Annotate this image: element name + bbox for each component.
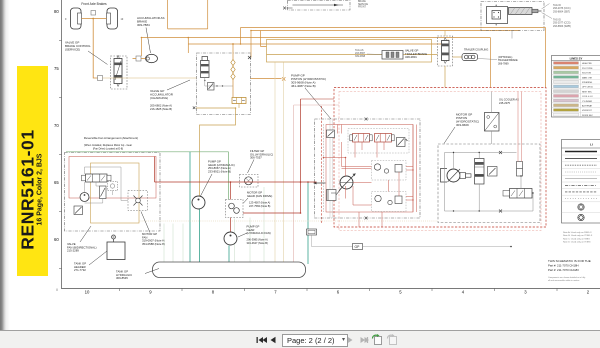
valve trailer brake bbox=[438, 36, 453, 66]
wire red pump2 feed bbox=[230, 182, 232, 232]
check valve 3 bbox=[231, 74, 235, 80]
check valve 1 bbox=[231, 60, 235, 66]
border zone numbers bbox=[54, 9, 590, 295]
svg-text:LINES SY: LINES SY bbox=[570, 57, 583, 61]
leader to brake valve bbox=[88, 51, 108, 65]
leader tank bbox=[145, 269, 159, 274]
svg-text:(CHARGING): (CHARGING) bbox=[150, 96, 168, 100]
svg-text:WORK SEC: WORK SEC bbox=[582, 115, 593, 117]
svg-text:354-0588 (Note B): 354-0588 (Note B) bbox=[142, 242, 165, 246]
port square at valve bbox=[98, 76, 103, 81]
wire spool drop bbox=[238, 104, 240, 109]
svg-text:Front Axle Brakes: Front Axle Brakes bbox=[81, 2, 107, 6]
case drain dashed riser bbox=[321, 106, 323, 223]
plug X pump box bottom bbox=[365, 217, 368, 220]
header tank breather bbox=[112, 235, 116, 242]
label: pump gp gear hydraulic fan bbox=[247, 225, 271, 236]
svg-text:GP: GP bbox=[355, 245, 361, 249]
label: motor gp gear fan drive bbox=[247, 191, 272, 198]
wire red cooler return riser bbox=[234, 99, 301, 213]
icon export page (disabled) bbox=[388, 334, 397, 345]
actuator body bbox=[487, 7, 508, 24]
svg-text:Note D: Used only on IT38G: Note D: Used only on IT38G bbox=[563, 241, 591, 244]
svg-text:Note A: Used only on 938G II: Note A: Used only on 938G II bbox=[563, 231, 592, 234]
svg-text:MAIN 1 RE: MAIN 1 RE bbox=[582, 76, 593, 79]
next page button (disabled) bbox=[348, 337, 353, 344]
label: valve gp brake control bbox=[65, 41, 91, 52]
pump gp piston box bbox=[315, 119, 421, 218]
wire cooler risers bbox=[491, 92, 493, 145]
coupler screen symbol bbox=[382, 51, 403, 60]
label: optional trailer brake bbox=[498, 56, 518, 65]
leader motor gp bbox=[444, 127, 455, 144]
wire red charge circuit bbox=[155, 181, 317, 183]
oil cooler symbol bbox=[485, 113, 500, 132]
wire coupler feed bbox=[267, 54, 438, 56]
flushing spool valve bbox=[503, 189, 532, 199]
svg-text:NEXT SEC: NEXT SEC bbox=[582, 91, 593, 93]
wheel brake right bbox=[107, 8, 118, 29]
plug X top right of charging box bbox=[248, 56, 251, 59]
motor gp gear symbol bbox=[226, 200, 244, 218]
label: tank gp header bbox=[74, 262, 86, 273]
svg-text:TRAILER COUPLING: TRAILER COUPLING bbox=[464, 49, 488, 52]
svg-text:348-2801: 348-2801 bbox=[405, 55, 417, 59]
line style samples bbox=[565, 152, 597, 199]
svg-text:8: 8 bbox=[212, 290, 215, 295]
last page button (disabled) bbox=[361, 337, 370, 343]
orange brake supply wires bbox=[133, 0, 546, 87]
legend table: line colors bbox=[552, 56, 600, 118]
leader to accumulator bbox=[146, 28, 151, 54]
fan tan frame bbox=[91, 163, 140, 223]
junction dot bbox=[235, 107, 237, 109]
wire AB to GP bbox=[312, 235, 353, 247]
previous page button bbox=[271, 337, 276, 344]
fan pump circle bbox=[80, 193, 89, 202]
svg-text:216-1825 (Note B): 216-1825 (Note B) bbox=[150, 107, 172, 111]
wire riser x251 bbox=[250, 31, 252, 58]
svg-text:60: 60 bbox=[54, 237, 59, 242]
label: accumulator brake bbox=[137, 16, 165, 27]
icon export page bbox=[373, 334, 382, 345]
leader tag as bbox=[367, 53, 382, 56]
junction brake tee bbox=[92, 18, 94, 20]
fan relief valve bbox=[100, 186, 107, 199]
tan supply loop box bbox=[267, 40, 432, 63]
actuator dots bbox=[493, 5, 499, 26]
leader pump gp bbox=[305, 88, 331, 119]
svg-text:65: 65 bbox=[54, 180, 59, 185]
svg-text:70: 70 bbox=[54, 123, 59, 128]
svg-text:6: 6 bbox=[337, 290, 340, 295]
leader motor fan bbox=[141, 212, 150, 233]
motor gp piston box bbox=[438, 144, 540, 223]
svg-text:293-8806 (SWB): 293-8806 (SWB) bbox=[553, 25, 571, 28]
pilot sub box bbox=[348, 129, 409, 154]
leader motor gear bbox=[244, 198, 249, 203]
wire riser x141 bbox=[141, 39, 143, 57]
junction dots red charge bbox=[230, 181, 309, 214]
wheel brake left bbox=[71, 8, 82, 29]
wire brake crossover bbox=[82, 18, 107, 20]
servo actuator cylinder bbox=[327, 188, 342, 201]
svg-text:COOL & LU: COOL & LU bbox=[582, 96, 593, 98]
junction dots red bbox=[323, 157, 414, 201]
wire pink case drain bbox=[294, 105, 339, 268]
wire bus y28.9 bbox=[168, 28, 208, 30]
plug X bottom left of charging box bbox=[193, 107, 196, 110]
svg-text:LIFT CIRCU: LIFT CIRCU bbox=[582, 87, 594, 89]
plug X pump box top bbox=[365, 118, 368, 121]
wire green manifold bbox=[66, 151, 229, 153]
svg-text:309-7884: 309-7884 bbox=[137, 23, 150, 27]
wire valve drain bbox=[444, 66, 446, 88]
motor internal wires bbox=[445, 153, 534, 212]
pump internal red frame bbox=[326, 125, 413, 213]
pale return wires left bbox=[164, 187, 264, 268]
fan pilot sub box bbox=[108, 182, 118, 191]
wire teal pump2 suction bbox=[228, 246, 230, 271]
wire teal charge suction bbox=[307, 182, 309, 264]
fan internal wires bbox=[85, 167, 129, 203]
svg-text:Reversible Fan Arrangement (At: Reversible Fan Arrangement (Attachment) bbox=[84, 136, 138, 140]
symbol sample check valve 2 bbox=[578, 214, 584, 220]
pump internal gray rails bbox=[323, 124, 325, 212]
resolver component bbox=[517, 162, 523, 177]
svg-text:all and measurable within in r: all and measurable within in routine bbox=[548, 279, 580, 282]
leader pump1 bbox=[201, 174, 213, 196]
red control wires bbox=[324, 125, 417, 228]
wire accumulator to tee bbox=[133, 58, 146, 60]
svg-text:319-4627 (Note B): 319-4627 (Note B) bbox=[247, 241, 268, 245]
connector GP bbox=[353, 244, 363, 250]
fan directional valve bbox=[82, 174, 112, 182]
svg-text:GEAR (FAN DRIVE): GEAR (FAN DRIVE) bbox=[247, 194, 272, 198]
label: valve gp accumulator charging bbox=[150, 89, 174, 100]
wire supply y44 bbox=[188, 40, 448, 45]
svg-text:75: 75 bbox=[54, 66, 59, 71]
svg-text:2: 2 bbox=[587, 290, 590, 295]
wire main supply y27.5 bbox=[241, 28, 546, 88]
shuttle box bbox=[488, 167, 498, 177]
svg-text:5: 5 bbox=[399, 290, 402, 295]
svg-text:CYLINDER: CYLINDER bbox=[582, 101, 593, 103]
wire brake supply down bbox=[93, 19, 97, 79]
svg-text:215-2289: 215-2289 bbox=[67, 249, 79, 253]
svg-text:Note B: Used only on IT38G II: Note B: Used only on IT38G II bbox=[563, 234, 593, 237]
legend row texts bbox=[582, 63, 594, 117]
filter gp symbol bbox=[240, 175, 259, 188]
label: valve fan bidirectional bbox=[67, 242, 97, 253]
svg-text:271-7732: 271-7732 bbox=[74, 268, 86, 272]
servo components upper bbox=[374, 164, 402, 173]
junction dot GP wire bbox=[510, 246, 512, 248]
schematic applicability text bbox=[548, 259, 591, 272]
valve service brake bbox=[111, 55, 128, 89]
yellow document tag bbox=[17, 66, 48, 276]
motor control spool bbox=[475, 159, 485, 185]
fan check valve bbox=[74, 206, 83, 215]
wire riser from top A bbox=[167, 0, 169, 29]
leader to charging valve bbox=[167, 80, 190, 90]
label: tag id upper bbox=[553, 4, 571, 13]
wire red fan box branch bbox=[154, 157, 156, 183]
charging spool valve bbox=[232, 98, 246, 104]
svg-text:BRAKE: BRAKE bbox=[358, 0, 366, 3]
leader valve fan bbox=[80, 226, 91, 242]
pink supply risers bbox=[518, 92, 521, 162]
sheet border frame bbox=[62, 0, 600, 289]
svg-text:245-2375: 245-2375 bbox=[499, 101, 511, 105]
svg-text:303-9609: 303-9609 bbox=[456, 123, 469, 127]
svg-text:Part #: 211-7070 CH18H: Part #: 211-7070 CH18H bbox=[548, 263, 579, 267]
notes text block bbox=[563, 231, 593, 244]
label: pump gp gear hydraulic bbox=[208, 160, 235, 174]
tank gp header bbox=[107, 242, 125, 260]
pale tan return wires bbox=[275, 63, 284, 269]
label: tag id lower bbox=[553, 19, 571, 28]
svg-text:SUCTION: SUCTION bbox=[582, 73, 592, 75]
junction dots motor bbox=[453, 152, 534, 212]
label: motor gp fan bbox=[142, 232, 165, 246]
svg-text:HIGH PRE: HIGH PRE bbox=[582, 63, 592, 65]
X plugs motor bbox=[499, 151, 502, 213]
swashplate pump symbol bbox=[339, 174, 356, 191]
svg-text:7: 7 bbox=[274, 290, 277, 295]
svg-text:80: 80 bbox=[54, 9, 59, 14]
label: filter gp oil bbox=[250, 149, 273, 160]
wire plug port arrow bbox=[251, 78, 282, 80]
port square accumulator bbox=[136, 56, 141, 61]
wire charging internal bbox=[205, 78, 233, 87]
plug X symbol bbox=[282, 77, 285, 80]
connector AB bbox=[307, 229, 317, 235]
oil cooler label bbox=[499, 98, 519, 105]
pilot valve small bbox=[208, 83, 215, 91]
accumulator symbol bbox=[146, 54, 158, 62]
trailer coupling symbol bbox=[462, 54, 478, 61]
label: service note (top) bbox=[358, 0, 369, 8]
svg-text:LI: LI bbox=[590, 143, 593, 147]
symbol sample check valve 1 bbox=[578, 204, 584, 210]
svg-text:461-4087 (Note B): 461-4087 (Note B) bbox=[291, 84, 316, 88]
test port square at brake line bbox=[91, 11, 96, 16]
svg-text:HYDROST: HYDROST bbox=[582, 110, 593, 112]
wire teal pump1 suction bbox=[199, 209, 201, 270]
wire plug to spool y108 bbox=[196, 108, 236, 196]
svg-text:ALTERNAT: ALTERNAT bbox=[582, 105, 593, 108]
svg-text:3: 3 bbox=[524, 290, 527, 295]
legend swatches bbox=[554, 62, 579, 116]
svg-text:10: 10 bbox=[85, 290, 90, 295]
hydrostatic system outer box (red dashed) bbox=[334, 88, 546, 228]
fan motor box bbox=[128, 191, 148, 211]
svg-text:FRONT: FRONT bbox=[358, 6, 367, 8]
relief valve pilot bbox=[397, 138, 409, 147]
fan symbol bbox=[134, 196, 143, 206]
wire GP out bbox=[363, 246, 513, 248]
svg-text:309-0898: 309-0898 bbox=[355, 55, 366, 58]
brake actuator group box (top right) bbox=[481, 2, 544, 31]
leader filter bbox=[248, 160, 255, 174]
svg-text:THIS SCHEMATIC IS FOR THE: THIS SCHEMATIC IS FOR THE bbox=[548, 259, 591, 263]
svg-text:(HYDRAULIC FAN): (HYDRAULIC FAN) bbox=[247, 231, 271, 235]
hydrostatic system inner box (pink dashed) bbox=[339, 92, 541, 231]
wire green gear motor feed bbox=[228, 152, 230, 200]
label: tank gp hydraulic bbox=[116, 270, 132, 281]
leader tank header bbox=[89, 251, 107, 265]
solenoid valve A bbox=[350, 134, 372, 143]
svg-text:227-7584 (Note B): 227-7584 (Note B) bbox=[249, 204, 270, 208]
input shaft arrow bbox=[317, 182, 326, 184]
wire teal fan return bbox=[189, 152, 191, 270]
tank gp hydraulic bbox=[153, 262, 306, 278]
leaders to tag labels bbox=[542, 4, 553, 19]
svg-text:PILOT PRE: PILOT PRE bbox=[582, 68, 593, 70]
wire riser x189 bbox=[187, 38, 189, 53]
svg-text:9: 9 bbox=[149, 290, 152, 295]
svg-text:STEERING: STEERING bbox=[582, 82, 593, 84]
motor symbol bbox=[441, 169, 472, 183]
svg-text:9: 9 bbox=[65, 18, 67, 21]
svg-text:(SERVICE): (SERVICE) bbox=[65, 48, 80, 52]
check valve 2 bbox=[231, 67, 235, 73]
brake cylinder bbox=[509, 8, 542, 15]
toolbar icons svg bbox=[0, 330, 600, 347]
svg-text:309-8545: 309-8545 bbox=[116, 276, 128, 280]
wire valve to coupling bbox=[453, 56, 463, 58]
svg-text:4: 4 bbox=[462, 290, 465, 295]
pdf pager toolbar bbox=[0, 330, 600, 348]
legend table: line styles bbox=[562, 140, 600, 224]
wire corner x260 bbox=[261, 31, 267, 47]
label: motor gp piston hydrostatic bbox=[456, 113, 479, 128]
svg-text:10: 10 bbox=[121, 18, 124, 21]
border ruler ticks bbox=[57, 41, 557, 292]
servo components lower bbox=[375, 195, 402, 204]
first page button bbox=[257, 337, 268, 343]
svg-text:293-8804 (SBT): 293-8804 (SBT) bbox=[553, 10, 570, 13]
svg-text:(Fan Drive) Located at E-8): (Fan Drive) Located at E-8) bbox=[93, 148, 123, 151]
svg-text:Part #: 211-7070 CHG83: Part #: 211-7070 CHG83 bbox=[548, 268, 579, 272]
wire supply y38.5 bbox=[142, 38, 491, 87]
valve gp accumulator charging box bbox=[197, 53, 251, 115]
servo valve lower sub box bbox=[372, 192, 407, 212]
svg-text:205-6802 (Note A): 205-6802 (Note A) bbox=[150, 104, 172, 108]
fan arrangement box bbox=[65, 153, 161, 232]
pump gp gear circle (hydraulic) bbox=[192, 196, 205, 209]
leader optional trailer brake bbox=[478, 59, 498, 60]
wire service valve drain bbox=[103, 77, 197, 79]
wire check stack x233 bbox=[232, 44, 234, 97]
solenoid valve B bbox=[375, 134, 395, 143]
browser left edge bar bbox=[0, 0, 10, 330]
svg-text:Components are shown detailed: Components are shown detailed or in full… bbox=[548, 276, 585, 279]
servo valve upper sub box bbox=[372, 161, 407, 181]
wire supply y30.5 bbox=[251, 30, 520, 32]
svg-text:Note C: Used only on 938G: Note C: Used only on 938G bbox=[563, 237, 590, 240]
orifice box bbox=[327, 130, 335, 138]
junction dots on supply bbox=[141, 30, 252, 45]
label: valve gp trailer brake bbox=[405, 49, 427, 60]
leader pump2 bbox=[238, 233, 247, 237]
svg-text:306-7869: 306-7869 bbox=[498, 62, 509, 65]
svg-text:233-8921 (Note B): 233-8921 (Note B) bbox=[208, 169, 231, 173]
wire actuator pilot drop bbox=[511, 31, 513, 39]
fan clutch cylinder box (top middle) bbox=[283, 1, 350, 11]
wire red feed left bbox=[301, 98, 335, 100]
solenoid valve charging bbox=[201, 57, 210, 78]
label: tag as bbox=[355, 49, 366, 58]
page number combo box bbox=[282, 334, 348, 347]
wire riser from top B bbox=[207, 0, 209, 29]
wire valve top pilot bbox=[444, 31, 446, 37]
svg-text:306-7557: 306-7557 bbox=[250, 156, 262, 160]
fan red frame bbox=[69, 157, 156, 199]
pump gp gear circle (hydraulic fan) bbox=[224, 232, 237, 245]
label: pump gp piston hydrostatic bbox=[291, 74, 326, 89]
junction dots charging bbox=[204, 80, 223, 87]
tan dotted return manifold bbox=[140, 220, 439, 222]
